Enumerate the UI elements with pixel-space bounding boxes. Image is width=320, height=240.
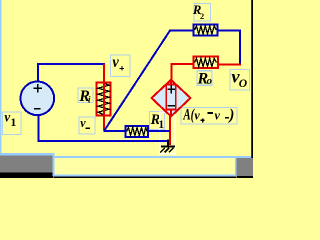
svg-text:v: v	[112, 54, 119, 71]
resistor R2	[194, 24, 218, 35]
svg-text:v: v	[215, 109, 221, 123]
label box v+	[111, 54, 131, 77]
svg-text:o: o	[207, 75, 213, 87]
gray block bottom-left	[0, 156, 53, 173]
bottom bar: light yellow track	[55, 158, 236, 175]
label box Ro	[197, 70, 213, 87]
wire: top horizontal to v+ node	[37, 63, 105, 65]
wire: R1 left horizontal	[104, 130, 126, 132]
light blue separator	[53, 153, 55, 176]
svg-text:1: 1	[10, 115, 16, 129]
label box v-	[79, 116, 95, 134]
resistor Ri	[97, 82, 111, 115]
wire: diagonal from v- node to R2	[104, 31, 170, 131]
wire: right vertical down to output node	[239, 30, 241, 65]
svg-text:2: 2	[200, 12, 204, 21]
wire: horizontal into R2 left	[169, 30, 194, 32]
wire: red vertical to diamond top	[171, 64, 173, 82]
wire: v1 top vertical	[37, 63, 39, 82]
label box vO	[230, 67, 250, 90]
wire: red Ro right to output node	[218, 64, 242, 66]
gray block bottom-right	[237, 158, 253, 176]
light blue separator right	[235, 158, 237, 176]
resistor R1	[126, 126, 149, 137]
wire: red top lead of Ri	[103, 64, 105, 83]
canvas background	[0, 0, 253, 178]
resistor Ro	[194, 57, 218, 69]
label box Ri	[78, 88, 93, 105]
wire: red Ro left horizontal	[171, 63, 194, 65]
voltage source v1	[21, 82, 55, 116]
ground	[160, 147, 175, 153]
label box R1	[150, 112, 165, 130]
bottom-left: canvas border above gray block	[0, 153, 54, 156]
bottom bar: top border	[54, 156, 251, 158]
right window border	[251, 0, 252, 158]
svg-text:): )	[227, 107, 234, 124]
wire: v1 bottom vertical	[38, 115, 40, 142]
wire: R1 right horizontal to node	[148, 130, 170, 132]
wire: bottom return horizontal	[38, 140, 169, 142]
svg-text:O: O	[239, 77, 248, 90]
label box v1	[3, 110, 22, 135]
wire: black ground lead	[167, 140, 169, 147]
left canvas edge stripe	[0, 0, 2, 156]
wire: red bottom lead of Ri	[103, 115, 105, 130]
svg-text:v: v	[194, 109, 200, 123]
label box A(v+ - v-)	[181, 107, 237, 124]
label box R2	[192, 3, 211, 21]
wire: R2 right to corner	[218, 30, 242, 32]
wire: red lead below diamond	[169, 115, 171, 145]
svg-text:1: 1	[158, 119, 164, 131]
dependent source A(v+ - v-) diamond	[152, 80, 191, 117]
white bounding box around ground element	[159, 112, 176, 155]
svg-text:v: v	[80, 116, 86, 130]
